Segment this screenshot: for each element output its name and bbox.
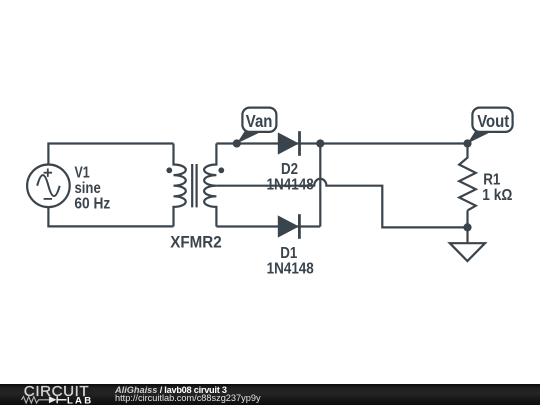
footer bar <box>0 384 540 405</box>
svg-text:D1: D1 <box>280 245 297 262</box>
wire R1 bottom to ground <box>466 210 468 243</box>
diode D2 <box>278 131 300 156</box>
wire vertical D1 cathode to top node <box>319 144 321 227</box>
wire center tap with hop over vertical <box>216 179 467 228</box>
svg-text:1 kΩ: 1 kΩ <box>482 186 512 204</box>
label V1 sine 60 Hz <box>74 164 110 212</box>
wire bottom left V1 to transformer <box>48 207 173 226</box>
label D1 1N4148 <box>267 245 314 278</box>
voltage source V1 <box>27 165 70 208</box>
node junction dot Van <box>233 139 241 147</box>
footer credit text <box>115 386 261 402</box>
ground <box>450 243 485 261</box>
transformer XFMR2 primary winding <box>174 144 186 227</box>
node junction dot D2 cathode <box>316 139 324 147</box>
label D2 1N4148 <box>267 161 314 194</box>
wire secondary top to Vout node <box>216 142 467 144</box>
svg-text:Van: Van <box>246 112 273 131</box>
diode D1 <box>278 214 300 239</box>
svg-text:LAB: LAB <box>67 395 93 405</box>
resistor R1 <box>459 144 476 211</box>
net flag Vout <box>467 108 512 144</box>
label R1 1 kOhm <box>482 172 512 205</box>
svg-text:1N4148: 1N4148 <box>267 261 314 278</box>
node junction dot Vout <box>463 139 471 147</box>
secondary phase dot <box>218 167 224 173</box>
net flag Van <box>237 108 277 144</box>
primary phase dot <box>166 167 172 173</box>
wire secondary bottom to D1 <box>216 225 320 227</box>
svg-text:1N4148: 1N4148 <box>267 176 314 193</box>
CircuitLab logo <box>0 384 110 405</box>
transformer XFMR2 secondary winding <box>204 144 216 227</box>
node junction dot R1 bottom <box>463 223 471 231</box>
transformer core <box>192 164 196 207</box>
wire top left V1 to transformer <box>48 144 173 165</box>
svg-text:XFMR2: XFMR2 <box>170 234 222 252</box>
svg-text:Vout: Vout <box>477 112 510 131</box>
svg-text:60 Hz: 60 Hz <box>74 194 110 212</box>
